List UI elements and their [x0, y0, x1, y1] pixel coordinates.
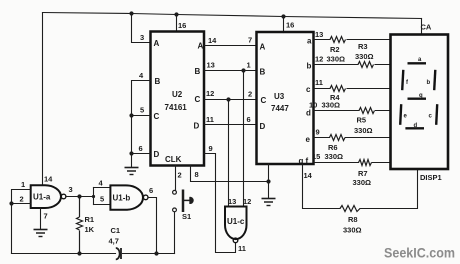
- svg-text:a: a: [307, 37, 312, 46]
- ground below U3: [262, 199, 276, 206]
- wire segment f row: [314, 162, 359, 164]
- segment e: [400, 104, 401, 125]
- wire U1-a output to U1-b inputs: [66, 188, 111, 205]
- svg-text:b: b: [307, 62, 312, 71]
- svg-text:2: 2: [20, 195, 24, 204]
- svg-text:DISP1: DISP1: [420, 173, 442, 182]
- svg-text:f: f: [306, 157, 309, 166]
- seven wires U3 to DISP1 with resistors: [303, 40, 418, 209]
- svg-text:13: 13: [207, 61, 215, 70]
- node junction QC row: [226, 97, 230, 101]
- wire U2 pins 4,5,6 tie-down bracket: [132, 81, 151, 167]
- svg-text:330Ω: 330Ω: [343, 226, 362, 235]
- svg-text:3: 3: [140, 33, 144, 42]
- svg-text:3: 3: [69, 185, 73, 194]
- svg-text:d: d: [306, 109, 311, 118]
- ground below U2 input bracket: [125, 168, 139, 175]
- IC U3 7447: [257, 32, 314, 166]
- svg-text:c: c: [306, 85, 311, 94]
- svg-text:R5: R5: [357, 116, 367, 125]
- wire segment b row: [314, 64, 359, 66]
- svg-text:B: B: [195, 67, 201, 76]
- svg-text:14: 14: [44, 175, 53, 184]
- svg-text:b: b: [427, 80, 431, 86]
- NAND gate U1-a: [31, 185, 66, 208]
- node junction QB row: [241, 68, 245, 72]
- svg-text:D: D: [154, 150, 160, 159]
- wire CA drop to DISP1: [421, 19, 423, 35]
- segment f: [402, 70, 403, 90]
- wire S1 bottom to rail: [174, 212, 176, 254]
- segment d: [405, 127, 424, 129]
- wire U2.11 to U3.6: [204, 124, 257, 126]
- wire U2 pin 6 stub: [132, 153, 151, 155]
- svg-text:330Ω: 330Ω: [325, 152, 344, 161]
- svg-text:SeekIC.com: SeekIC.com: [384, 245, 455, 261]
- node junction top rail at x=283: [281, 14, 285, 18]
- wire segment g row return: [303, 164, 341, 209]
- svg-text:14: 14: [304, 171, 313, 180]
- svg-text:330Ω: 330Ω: [355, 52, 374, 61]
- svg-text:R8: R8: [348, 215, 358, 224]
- NAND gate U1-b: [110, 185, 148, 209]
- resistor R2: [330, 37, 346, 43]
- wire segment d row: [314, 110, 360, 112]
- svg-text:15: 15: [312, 152, 320, 161]
- svg-text:R6: R6: [328, 143, 338, 152]
- svg-text:A: A: [198, 42, 204, 51]
- svg-text:R3: R3: [358, 42, 368, 51]
- svg-text:g: g: [419, 93, 423, 99]
- NAND gate U1-c: [225, 207, 247, 243]
- svg-text:1: 1: [247, 61, 251, 70]
- svg-text:330Ω: 330Ω: [322, 101, 341, 110]
- wire U2 pin 8 to ground node: [191, 164, 271, 198]
- wire segment c row: [314, 88, 331, 90]
- svg-text:6: 6: [247, 115, 251, 124]
- svg-text:330Ω: 330Ω: [327, 55, 346, 64]
- svg-text:R1: R1: [85, 215, 95, 224]
- svg-text:16: 16: [286, 21, 294, 30]
- svg-text:13: 13: [315, 30, 323, 39]
- svg-text:S1: S1: [182, 212, 191, 221]
- svg-text:12: 12: [315, 55, 323, 64]
- svg-text:R7: R7: [358, 169, 368, 178]
- svg-text:5: 5: [140, 106, 144, 115]
- svg-text:U1-a: U1-a: [33, 193, 51, 202]
- wire U2 pin 9 to U1-c output 11: [204, 154, 236, 253]
- resistor R6: [330, 135, 346, 141]
- display DISP1: [391, 35, 449, 170]
- U2 pin 2 stub to S1: [175, 166, 177, 191]
- wire bottom rail: [12, 253, 175, 255]
- svg-text:11: 11: [315, 78, 323, 87]
- svg-text:R2: R2: [330, 45, 340, 54]
- resistor R8: [340, 206, 360, 212]
- svg-text:7: 7: [44, 212, 48, 221]
- svg-text:U2: U2: [172, 90, 183, 99]
- segment c: [436, 104, 437, 125]
- svg-text:74161: 74161: [165, 103, 188, 112]
- svg-text:A: A: [154, 39, 160, 48]
- svg-text:D: D: [194, 122, 200, 131]
- wire VCC left drop to U1-a pin 14: [42, 13, 44, 186]
- resistor R4: [330, 86, 346, 92]
- wire U3 pin 8 down: [268, 164, 270, 198]
- svg-text:9: 9: [316, 128, 320, 137]
- wire segment e row: [314, 137, 330, 139]
- node junction pin5: [129, 113, 133, 117]
- svg-text:10: 10: [309, 101, 317, 110]
- wire U2 pin 16 drop: [176, 15, 178, 32]
- svg-text:2: 2: [248, 90, 252, 99]
- svg-text:7: 7: [248, 36, 252, 45]
- resistor R7: [359, 160, 372, 166]
- svg-text:4,7: 4,7: [109, 237, 119, 246]
- svg-text:A: A: [260, 43, 266, 52]
- ground below U1-a: [34, 230, 48, 237]
- svg-text:11: 11: [238, 244, 246, 253]
- wire U2.14 to U3.7: [204, 45, 257, 47]
- IC U2 74161: [151, 32, 205, 166]
- svg-text:d: d: [414, 123, 418, 129]
- wire QB to U1-c pin 12: [243, 71, 245, 207]
- wire U2 pin 3 from rail: [132, 14, 151, 43]
- resistor R3: [358, 62, 374, 68]
- capacitor C1: [116, 248, 121, 259]
- segment a: [408, 62, 427, 64]
- node junction top rail at x=176: [174, 12, 178, 16]
- svg-text:330Ω: 330Ω: [353, 178, 372, 187]
- svg-text:CA: CA: [421, 23, 432, 32]
- svg-text:C: C: [154, 112, 160, 121]
- svg-text:D: D: [260, 122, 266, 131]
- svg-text:5: 5: [100, 195, 104, 204]
- svg-text:CLK: CLK: [165, 155, 182, 164]
- svg-text:16: 16: [178, 21, 186, 30]
- wire segment a row: [314, 39, 331, 41]
- wire VCC top rail: [43, 13, 422, 19]
- node junction pin6: [129, 151, 133, 155]
- svg-text:B: B: [260, 68, 266, 77]
- svg-text:U1-b: U1-b: [113, 194, 131, 203]
- svg-text:1K: 1K: [85, 225, 95, 234]
- wire U1-a pin 7 to ground: [40, 208, 42, 229]
- svg-text:1: 1: [21, 180, 25, 189]
- svg-text:12: 12: [243, 197, 251, 206]
- node junction top rail at x=131: [129, 11, 133, 15]
- switch S1: [173, 190, 194, 213]
- svg-text:7447: 7447: [271, 104, 289, 113]
- wire U1-b output down to rail: [148, 198, 159, 256]
- svg-text:e: e: [306, 135, 311, 144]
- svg-text:14: 14: [208, 36, 217, 45]
- svg-text:C1: C1: [111, 226, 121, 235]
- resistor R1: [77, 197, 83, 256]
- segment b: [434, 70, 435, 90]
- svg-text:C: C: [261, 96, 267, 105]
- svg-text:11: 11: [206, 115, 214, 124]
- svg-text:U1-c: U1-c: [227, 217, 245, 226]
- wire QC to U1-c pin 13: [228, 100, 230, 207]
- svg-text:2: 2: [178, 171, 182, 180]
- wire U3 pin 16 drop: [283, 17, 285, 33]
- svg-text:13: 13: [228, 197, 236, 206]
- svg-text:8: 8: [195, 170, 199, 179]
- wire U2.12 to U3.2: [204, 99, 257, 101]
- node junction ground: [266, 179, 270, 183]
- svg-text:U3: U3: [274, 92, 285, 101]
- wire U2.13 to U3.1: [204, 70, 257, 72]
- svg-text:9: 9: [209, 144, 213, 153]
- resistor R5: [359, 108, 375, 114]
- segment g: [408, 97, 427, 99]
- svg-text:6: 6: [149, 186, 153, 195]
- wire U1-a inputs bracket: [9, 190, 40, 254]
- svg-text:C: C: [195, 95, 201, 104]
- wire U2 pin 5 stub: [132, 115, 151, 117]
- svg-text:B: B: [155, 77, 161, 86]
- svg-text:330Ω: 330Ω: [354, 126, 373, 135]
- svg-text:12: 12: [206, 89, 214, 98]
- svg-text:6: 6: [139, 144, 143, 153]
